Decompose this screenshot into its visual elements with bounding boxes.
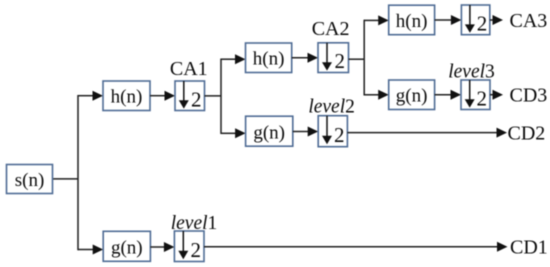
wire: h(n)2 to downsampler D2 with arrowhead — [292, 53, 318, 63]
downsampler D3b (down-arrow 2) — [461, 80, 490, 110]
wire: trunk1 vertical — [77, 95, 79, 250]
svg-text:g(n): g(n) — [253, 122, 285, 143]
svg-text:level2: level2 — [308, 97, 355, 118]
wire: D1b to CD1 with arrowhead — [204, 242, 508, 252]
wire: s(n) to trunk1 — [53, 178, 79, 180]
wire: trunk3 top to h(n) level3 with arrowhead — [364, 15, 389, 25]
wire: trunk3 vertical — [363, 20, 365, 96]
svg-text:h(n): h(n) — [111, 87, 143, 108]
wire: h(n)1 to downsampler D1 with arrowhead — [150, 91, 175, 101]
wire: trunk1 bottom to g(n) level1 with arrowhead — [78, 245, 103, 255]
wire: g(n)3 to downsampler D3b with arrowhead — [435, 90, 461, 100]
label CA3 — [510, 10, 548, 32]
filter h(n) level 3 — [389, 5, 435, 35]
filter g(n) level 2 — [246, 116, 293, 146]
svg-text:2: 2 — [191, 87, 202, 111]
svg-text:2: 2 — [191, 238, 202, 262]
wire: trunk1 top to h(n) level1 with arrowhead — [78, 91, 103, 101]
wire: trunk2 top to h(n) level2 with arrowhead — [221, 54, 246, 64]
wire: D2 to trunk3 — [349, 58, 365, 60]
wire: g(n)2 to downsampler D2b with arrowhead — [293, 127, 318, 137]
svg-text:2: 2 — [477, 11, 488, 35]
svg-text:h(n): h(n) — [253, 49, 285, 70]
box s(n) — [7, 165, 53, 194]
svg-text:CD3: CD3 — [510, 85, 548, 107]
svg-text:s(n): s(n) — [15, 170, 45, 191]
wire: D1 to trunk2 — [205, 95, 222, 97]
wire: h(n)3 to downsampler D3 with arrowhead — [435, 15, 462, 25]
wire: D2b to CD2 with arrowhead — [347, 128, 507, 138]
filter h(n) level 1 — [103, 81, 150, 111]
label level2 — [308, 97, 355, 118]
label CA2 — [312, 18, 350, 40]
wire: D3b to CD3 with arrowhead — [490, 90, 503, 100]
svg-text:2: 2 — [334, 123, 345, 147]
downsampler D2b (down-arrow 2) — [318, 116, 347, 148]
svg-text:2: 2 — [477, 86, 488, 110]
svg-text:2: 2 — [335, 49, 346, 73]
svg-text:g(n): g(n) — [396, 86, 428, 107]
label CD1 — [510, 237, 548, 259]
label CD3 — [510, 85, 548, 107]
svg-text:g(n): g(n) — [111, 238, 143, 259]
downsampler D2 (down-arrow 2) — [318, 43, 349, 73]
label CD2 — [508, 122, 546, 144]
filter g(n) level 3 — [389, 80, 435, 110]
wire: D3 to CA3 with arrowhead — [490, 15, 503, 25]
label CA1 — [170, 58, 208, 80]
svg-text:CA1: CA1 — [170, 58, 208, 80]
wire: g(n)1 to downsampler D1b with arrowhead — [150, 242, 174, 252]
wire: trunk2 bottom to g(n) level2 with arrowhead — [221, 128, 246, 138]
svg-text:CA3: CA3 — [510, 10, 548, 32]
filter h(n) level 2 — [246, 43, 292, 73]
downsampler D1b (down-arrow 2) — [174, 231, 204, 262]
label level1 — [171, 213, 218, 234]
label level3 — [448, 61, 495, 82]
downsampler D3 (down-arrow 2) — [461, 5, 489, 35]
wire: trunk2 vertical — [220, 59, 222, 135]
wire: trunk3 bottom to g(n) level3 with arrowhead — [364, 90, 389, 100]
svg-text:CA2: CA2 — [312, 18, 350, 40]
filter g(n) level 1 — [103, 231, 150, 261]
downsampler D1 (down-arrow 2) — [175, 81, 205, 111]
svg-text:CD1: CD1 — [510, 237, 548, 259]
svg-text:CD2: CD2 — [508, 122, 546, 144]
svg-text:h(n): h(n) — [396, 11, 428, 32]
